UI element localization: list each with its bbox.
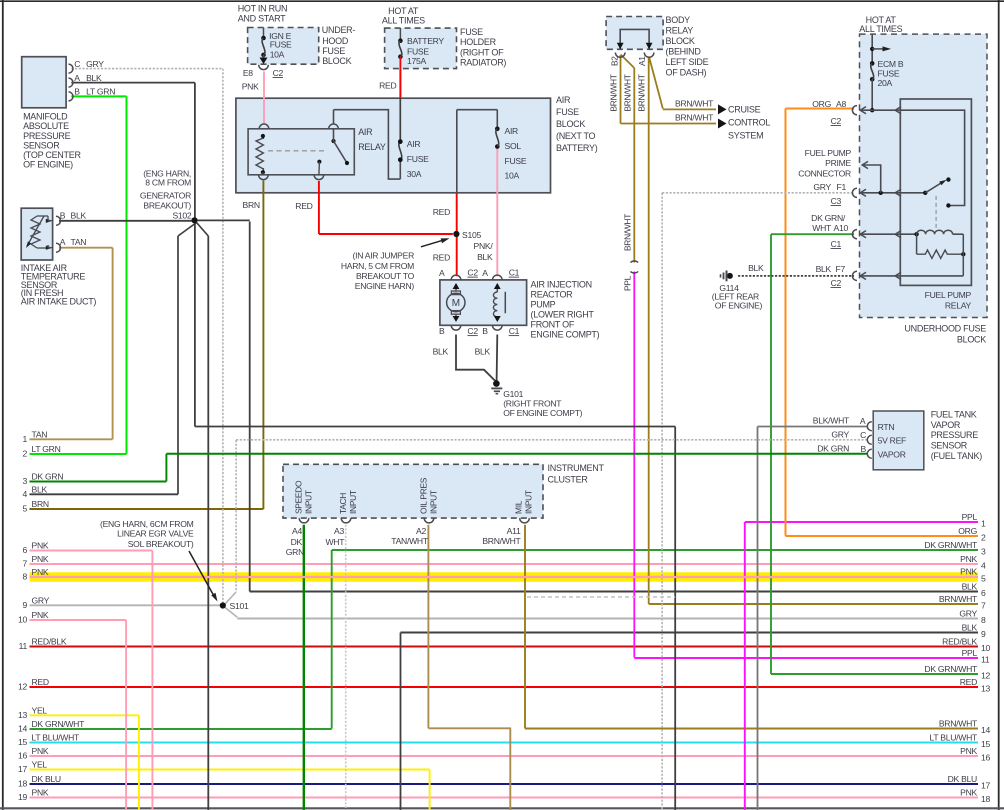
svg-text:LT GRN: LT GRN (86, 86, 115, 96)
svg-text:A: A (74, 73, 80, 83)
svg-text:LEFT SIDE: LEFT SIDE (666, 57, 709, 67)
svg-text:BRN: BRN (243, 200, 260, 210)
svg-text:1: 1 (981, 519, 986, 529)
svg-text:A: A (482, 268, 488, 278)
svg-text:OF ENGINE): OF ENGINE) (715, 300, 763, 310)
svg-text:RELAY: RELAY (358, 142, 386, 152)
svg-text:PNK: PNK (32, 610, 49, 620)
svg-text:INPUT: INPUT (524, 490, 534, 514)
svg-text:GRY: GRY (813, 182, 831, 192)
svg-text:BLK: BLK (475, 347, 491, 357)
svg-text:17: 17 (18, 764, 27, 774)
svg-text:PNK: PNK (242, 82, 259, 92)
svg-text:PNK: PNK (960, 746, 977, 756)
svg-text:C3: C3 (831, 196, 842, 206)
svg-text:A3: A3 (334, 526, 344, 536)
svg-text:RED/BLK: RED/BLK (942, 636, 977, 646)
svg-text:BLK: BLK (962, 581, 978, 591)
svg-text:DK GRN/WHT: DK GRN/WHT (924, 664, 978, 674)
svg-text:20A: 20A (878, 78, 893, 88)
svg-text:RED: RED (32, 677, 49, 687)
svg-text:INSTRUMENT: INSTRUMENT (548, 463, 605, 473)
svg-text:YEL: YEL (32, 760, 48, 770)
svg-text:FUEL PUMP: FUEL PUMP (805, 148, 852, 158)
svg-text:GENERATOR: GENERATOR (140, 190, 191, 200)
svg-text:HOT IN RUN: HOT IN RUN (238, 4, 288, 14)
svg-text:SPEEDO: SPEEDO (294, 480, 304, 514)
svg-text:S102: S102 (172, 211, 191, 221)
svg-text:BLK: BLK (962, 622, 978, 632)
svg-text:PRIME: PRIME (825, 158, 851, 168)
svg-text:MANIFOLD: MANIFOLD (23, 112, 68, 122)
svg-text:PPL: PPL (623, 275, 633, 291)
svg-text:HOOD: HOOD (322, 36, 349, 46)
svg-text:CONNECTOR: CONNECTOR (798, 169, 851, 179)
svg-text:CRUISE: CRUISE (728, 105, 761, 115)
svg-text:175A: 175A (407, 56, 426, 66)
svg-text:B: B (482, 326, 488, 336)
svg-text:LINEAR EGR VALVE: LINEAR EGR VALVE (117, 529, 194, 539)
svg-text:16: 16 (981, 753, 990, 763)
svg-text:BLOCK: BLOCK (556, 119, 585, 129)
svg-text:(LOWER RIGHT: (LOWER RIGHT (531, 310, 595, 320)
svg-text:C2: C2 (831, 116, 842, 126)
svg-text:AND START: AND START (238, 13, 286, 23)
svg-text:(TOP CENTER: (TOP CENTER (23, 150, 81, 160)
svg-text:4: 4 (23, 489, 28, 499)
svg-text:11: 11 (981, 655, 990, 665)
svg-text:8 CM FROM: 8 CM FROM (145, 178, 191, 188)
svg-text:8: 8 (23, 571, 28, 581)
svg-text:BLK: BLK (433, 347, 449, 357)
svg-text:M: M (452, 298, 460, 309)
svg-text:DK: DK (291, 537, 303, 547)
svg-text:DK GRN: DK GRN (32, 472, 64, 482)
svg-text:BRN/WHT: BRN/WHT (609, 74, 619, 111)
svg-text:C2: C2 (467, 268, 478, 278)
svg-text:BATTERY): BATTERY) (556, 143, 598, 153)
svg-text:19: 19 (18, 792, 27, 802)
svg-text:15: 15 (18, 737, 27, 747)
svg-text:A2: A2 (416, 526, 426, 536)
svg-text:INPUT: INPUT (348, 490, 358, 514)
svg-text:RTN: RTN (878, 422, 895, 432)
svg-text:RELAY: RELAY (945, 301, 972, 311)
svg-text:2: 2 (981, 533, 986, 543)
svg-text:DK BLU: DK BLU (948, 774, 977, 784)
svg-text:(FUEL TANK): (FUEL TANK) (931, 451, 983, 461)
svg-text:B: B (74, 86, 80, 96)
svg-text:FRONT OF: FRONT OF (531, 320, 575, 330)
svg-text:OF ENGINE): OF ENGINE) (23, 160, 73, 170)
svg-text:AIR: AIR (407, 139, 421, 149)
svg-text:TACH: TACH (338, 493, 348, 514)
svg-text:(RIGHT OF: (RIGHT OF (460, 48, 504, 58)
svg-text:PNK: PNK (32, 746, 49, 756)
svg-text:GRY: GRY (86, 59, 104, 69)
svg-text:HOLDER: HOLDER (460, 37, 497, 47)
svg-text:12: 12 (18, 682, 27, 692)
svg-text:16: 16 (18, 751, 27, 761)
svg-text:REACTOR: REACTOR (531, 290, 574, 300)
svg-text:ALL TIMES: ALL TIMES (382, 16, 425, 26)
svg-text:18: 18 (18, 779, 27, 789)
svg-text:CLUSTER: CLUSTER (548, 475, 589, 485)
svg-text:BRN/WHT: BRN/WHT (675, 112, 714, 122)
svg-text:AIR INJECTION: AIR INJECTION (531, 280, 592, 290)
svg-text:4: 4 (981, 561, 986, 571)
svg-text:ENGINE HARN): ENGINE HARN) (355, 281, 415, 291)
svg-text:BLK: BLK (86, 73, 102, 83)
svg-text:8: 8 (981, 615, 986, 625)
svg-text:B2: B2 (610, 56, 620, 66)
svg-text:UNDERHOOD FUSE: UNDERHOOD FUSE (904, 324, 986, 334)
svg-text:FUEL TANK: FUEL TANK (931, 409, 977, 419)
svg-text:ENGINE COMPT): ENGINE COMPT) (531, 330, 600, 340)
svg-text:UNDER-: UNDER- (322, 25, 356, 35)
svg-text:FUSE: FUSE (407, 154, 429, 164)
svg-text:SYSTEM: SYSTEM (728, 131, 763, 141)
svg-text:S101: S101 (230, 601, 249, 611)
svg-text:ORG: ORG (958, 526, 977, 536)
svg-text:BLOCK: BLOCK (666, 36, 695, 46)
svg-text:OF DASH): OF DASH) (666, 68, 707, 78)
svg-text:AIR: AIR (556, 95, 571, 105)
svg-text:C2: C2 (831, 278, 842, 288)
svg-text:SENSOR: SENSOR (931, 440, 968, 450)
svg-text:BREAKOUT): BREAKOUT) (143, 201, 191, 211)
svg-text:AIR INTAKE DUCT): AIR INTAKE DUCT) (21, 297, 97, 307)
svg-text:BRN/WHT: BRN/WHT (675, 98, 714, 108)
svg-text:BATTERY: BATTERY (407, 36, 444, 46)
svg-text:BLK: BLK (32, 484, 48, 494)
svg-text:9: 9 (981, 629, 986, 639)
svg-text:RED: RED (433, 253, 450, 263)
svg-text:PRESSURE: PRESSURE (931, 430, 979, 440)
svg-text:PNK: PNK (32, 554, 49, 564)
svg-text:C2: C2 (273, 68, 284, 78)
svg-text:RED/BLK: RED/BLK (32, 637, 67, 647)
svg-text:BRN/WHT: BRN/WHT (637, 74, 647, 111)
svg-text:HOT AT: HOT AT (388, 6, 419, 16)
svg-text:E8: E8 (243, 68, 253, 78)
svg-text:6: 6 (981, 588, 986, 598)
svg-text:PNK: PNK (32, 541, 49, 551)
svg-text:5V REF: 5V REF (878, 436, 906, 446)
svg-text:7: 7 (981, 601, 986, 611)
svg-text:1: 1 (23, 434, 28, 444)
svg-text:GRY: GRY (32, 595, 50, 605)
svg-text:PNK/: PNK/ (474, 241, 494, 251)
svg-text:WHT: WHT (812, 223, 832, 233)
svg-text:LT BLU/WHT: LT BLU/WHT (32, 733, 81, 743)
svg-text:PUMP: PUMP (531, 300, 556, 310)
svg-text:GRY: GRY (831, 430, 849, 440)
svg-text:7: 7 (23, 559, 28, 569)
svg-text:RED: RED (433, 207, 450, 217)
svg-text:BLK: BLK (477, 252, 493, 262)
svg-text:AIR: AIR (505, 126, 519, 136)
svg-text:10: 10 (18, 615, 27, 625)
svg-text:A11: A11 (507, 526, 521, 536)
svg-text:RED: RED (295, 201, 312, 211)
svg-text:B: B (439, 326, 445, 336)
svg-text:GRY: GRY (959, 608, 977, 618)
svg-text:A: A (439, 268, 445, 278)
svg-text:BODY: BODY (666, 15, 691, 25)
svg-text:FUSE: FUSE (460, 27, 483, 37)
svg-text:5: 5 (981, 573, 986, 583)
svg-text:A4: A4 (292, 526, 302, 536)
svg-text:14: 14 (981, 725, 990, 735)
svg-text:9: 9 (23, 600, 28, 610)
svg-text:RED: RED (379, 81, 396, 91)
svg-text:PNK: PNK (960, 787, 977, 797)
svg-text:PPL: PPL (962, 648, 978, 658)
svg-text:F7: F7 (836, 264, 846, 274)
svg-text:DK GRN/: DK GRN/ (811, 213, 846, 223)
svg-text:FUSE: FUSE (878, 69, 900, 79)
svg-text:FUSE: FUSE (322, 46, 345, 56)
svg-text:B: B (861, 444, 867, 454)
svg-text:PNK: PNK (960, 567, 977, 577)
svg-text:14: 14 (18, 724, 27, 734)
svg-text:18: 18 (981, 794, 990, 804)
svg-text:INPUT: INPUT (304, 490, 314, 514)
svg-text:PNK: PNK (32, 567, 49, 577)
svg-text:RED: RED (960, 677, 977, 687)
svg-text:YEL: YEL (32, 705, 48, 715)
svg-text:BLOCK: BLOCK (957, 335, 986, 345)
svg-text:BRN/WHT: BRN/WHT (939, 594, 978, 604)
svg-text:MIL: MIL (514, 500, 524, 514)
svg-text:13: 13 (18, 710, 27, 720)
svg-text:S105: S105 (462, 230, 481, 240)
svg-text:FUSE: FUSE (556, 107, 579, 117)
svg-text:BRN/WHT: BRN/WHT (623, 214, 633, 251)
svg-text:ECM B: ECM B (878, 59, 904, 69)
svg-text:ORG: ORG (812, 99, 831, 109)
svg-text:(NEXT TO: (NEXT TO (556, 131, 596, 141)
svg-text:DK GRN/WHT: DK GRN/WHT (924, 540, 978, 550)
svg-text:PPL: PPL (962, 512, 978, 522)
svg-text:BREAKOUT TO: BREAKOUT TO (356, 271, 415, 281)
svg-text:PRESSURE: PRESSURE (23, 131, 71, 141)
svg-text:LT GRN: LT GRN (32, 444, 61, 454)
svg-text:(IN AIR JUMPER: (IN AIR JUMPER (353, 251, 415, 261)
svg-text:BLK: BLK (816, 264, 832, 274)
svg-text:BRN/WHT: BRN/WHT (482, 536, 521, 546)
svg-text:OF ENGINE COMPT): OF ENGINE COMPT) (503, 408, 582, 418)
svg-text:BLK/WHT: BLK/WHT (813, 416, 850, 426)
svg-text:C1: C1 (831, 239, 842, 249)
svg-text:DK BLU: DK BLU (32, 774, 61, 784)
svg-text:BRN/WHT: BRN/WHT (623, 74, 633, 111)
svg-text:F1: F1 (837, 182, 847, 192)
svg-text:GRN: GRN (286, 547, 304, 557)
svg-text:A: A (60, 237, 66, 247)
svg-text:VAPOR: VAPOR (931, 420, 961, 430)
svg-text:BLOCK: BLOCK (322, 56, 351, 66)
svg-text:AIR: AIR (358, 127, 373, 137)
svg-text:11: 11 (19, 641, 28, 651)
svg-text:15: 15 (981, 739, 990, 749)
svg-text:TAN/WHT: TAN/WHT (391, 536, 429, 546)
svg-text:BLK: BLK (71, 210, 87, 220)
svg-text:BRN: BRN (32, 499, 49, 509)
svg-text:FUSE: FUSE (270, 40, 292, 50)
svg-text:17: 17 (981, 781, 990, 791)
svg-text:TAN: TAN (32, 429, 48, 439)
svg-text:12: 12 (981, 671, 990, 681)
svg-text:5: 5 (23, 504, 28, 514)
svg-text:(BEHIND: (BEHIND (666, 47, 702, 57)
svg-text:FUEL PUMP: FUEL PUMP (925, 290, 972, 300)
svg-text:3: 3 (981, 547, 986, 557)
svg-text:VAPOR: VAPOR (878, 449, 906, 459)
svg-text:SOL: SOL (505, 141, 522, 151)
svg-text:OIL PRES: OIL PRES (419, 477, 429, 514)
svg-text:HARN, 5 CM FROM: HARN, 5 CM FROM (341, 261, 414, 271)
svg-text:C2: C2 (467, 326, 478, 336)
svg-text:DK GRN: DK GRN (817, 444, 849, 454)
svg-text:FUSE: FUSE (407, 46, 429, 56)
svg-text:A8: A8 (836, 99, 846, 109)
svg-text:C: C (74, 59, 80, 69)
svg-text:13: 13 (981, 684, 990, 694)
svg-text:PNK: PNK (960, 554, 977, 564)
svg-text:2: 2 (23, 449, 28, 459)
svg-text:A10: A10 (834, 223, 849, 233)
svg-text:10: 10 (981, 643, 990, 653)
svg-text:C1: C1 (509, 268, 520, 278)
svg-text:30A: 30A (407, 169, 422, 179)
svg-text:10A: 10A (505, 171, 520, 181)
svg-text:FUSE: FUSE (505, 156, 527, 166)
svg-text:DK GRN/WHT: DK GRN/WHT (32, 719, 86, 729)
svg-text:C1: C1 (509, 326, 520, 336)
svg-text:BLK: BLK (748, 263, 764, 273)
svg-text:SENSOR: SENSOR (23, 140, 60, 150)
svg-text:B: B (60, 210, 66, 220)
svg-text:A1: A1 (637, 56, 647, 66)
svg-text:ALL TIMES: ALL TIMES (859, 24, 902, 34)
svg-text:3: 3 (23, 476, 28, 486)
svg-text:RELAY: RELAY (666, 26, 694, 36)
svg-text:WHT: WHT (325, 537, 345, 547)
svg-text:C: C (860, 430, 866, 440)
svg-text:PNK: PNK (32, 788, 49, 798)
svg-text:LT BLU/WHT: LT BLU/WHT (930, 732, 979, 742)
svg-text:CONTROL: CONTROL (728, 118, 770, 128)
svg-text:INPUT: INPUT (429, 490, 439, 514)
svg-text:(ENG HARN, 6CM FROM: (ENG HARN, 6CM FROM (100, 519, 194, 529)
svg-text:SOL BREAKOUT): SOL BREAKOUT) (128, 539, 194, 549)
svg-text:10A: 10A (270, 49, 285, 59)
svg-text:(RIGHT FRONT: (RIGHT FRONT (503, 398, 562, 408)
svg-text:A: A (860, 416, 866, 426)
svg-text:ABSOLUTE: ABSOLUTE (23, 121, 69, 131)
svg-text:RADIATOR): RADIATOR) (460, 58, 506, 68)
svg-text:TAN: TAN (71, 237, 87, 247)
svg-text:BRN/WHT: BRN/WHT (939, 718, 978, 728)
svg-text:6: 6 (23, 545, 28, 555)
